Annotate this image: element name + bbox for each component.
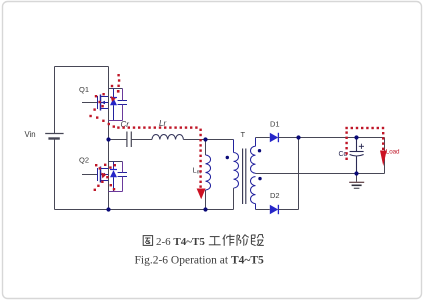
current path arrow at Lm xyxy=(197,189,206,200)
current path output loop top xyxy=(345,127,384,129)
wire output top xyxy=(299,137,385,139)
node dot leg bottom xyxy=(106,207,110,211)
current path output loop right vertical xyxy=(382,132,384,150)
svg-text:Q1: Q1 xyxy=(79,85,89,94)
transistor Q2 mosfet xyxy=(82,167,108,183)
wire half-bridge leg xyxy=(108,67,110,210)
svg-text:D2: D2 xyxy=(270,191,280,200)
current path dotted vertical through Lm xyxy=(199,129,201,188)
transformer T secondary polarity dots xyxy=(258,149,261,152)
wire D1 to node xyxy=(278,137,298,139)
node dot Co top xyxy=(354,135,358,139)
transistor Q1 arrow xyxy=(101,101,105,105)
transformer T secondary top winding xyxy=(251,138,256,174)
diode D2 xyxy=(270,205,279,214)
glyph 工 xyxy=(210,236,220,238)
glyph 图 xyxy=(143,236,152,246)
node dot Co bottom xyxy=(354,171,358,175)
Q1 drain-source capacitor xyxy=(118,101,127,105)
svg-text:D1: D1 xyxy=(270,120,280,129)
diode D1 xyxy=(270,133,279,142)
svg-text:Fig.2-6 Operation at T4~T5: Fig.2-6 Operation at T4~T5 xyxy=(135,255,265,267)
transistor Q1 mosfet xyxy=(82,95,108,111)
current path loop around Q2 xyxy=(94,164,116,191)
node dot resonant node xyxy=(203,137,207,141)
wire output bottom (center tap) xyxy=(256,173,385,175)
caption line 1: 图 2-6 T4~T5 工作阶段 xyxy=(143,236,152,246)
svg-text:Vin: Vin xyxy=(25,130,36,139)
wire Lm bottom lead xyxy=(205,190,207,210)
current path arrow at load xyxy=(380,151,387,167)
wire node to primary xyxy=(206,139,234,141)
Q1 branch right/bottom wires xyxy=(109,89,123,121)
current path dotted entry into Q1 xyxy=(117,74,120,93)
Q1 branch top wire xyxy=(109,88,123,90)
glyph 作 xyxy=(223,235,226,240)
node dot Lm bottom xyxy=(203,207,207,211)
current path loop around Q1 xyxy=(89,85,115,128)
node dot half-bridge mid xyxy=(106,137,110,141)
transistor Q2 arrow xyxy=(101,173,105,177)
wire left rail lower xyxy=(54,139,56,210)
inductor Lm xyxy=(206,155,211,190)
wire secondary top to D1 xyxy=(256,137,270,139)
capacitor Cr xyxy=(127,132,131,148)
Q2 drain-source capacitor xyxy=(118,173,127,177)
Q1 body diode xyxy=(110,89,117,121)
Q2 branch top wire xyxy=(109,161,123,163)
wire rectifier rail xyxy=(298,138,300,210)
Q2 body diode xyxy=(110,162,117,192)
svg-text:2-6 T4~T5: 2-6 T4~T5 xyxy=(156,236,205,248)
glyph 段 xyxy=(250,235,252,244)
svg-text:Load: Load xyxy=(386,149,400,156)
ground xyxy=(349,174,364,189)
wire D2 to rectifier rail xyxy=(278,209,298,211)
Q2 branch right/bottom wires xyxy=(109,162,123,192)
wire Lr to node xyxy=(183,139,205,141)
transformer T primary polarity dot xyxy=(226,156,229,159)
wire Cr to Lr xyxy=(131,139,152,141)
current path output loop left vertical xyxy=(345,131,347,160)
wire bottom rail xyxy=(55,209,234,211)
wire mid rail to Cr xyxy=(109,139,127,141)
transformer T secondary bottom winding xyxy=(251,177,256,210)
wire secondary bottom to D2 xyxy=(256,209,270,211)
wire top rail xyxy=(55,66,109,68)
transformer T core xyxy=(243,149,246,205)
capacitor Co xyxy=(350,138,364,174)
battery Vin xyxy=(45,134,63,139)
inductor Lr xyxy=(152,134,183,139)
node dot D1 cathode xyxy=(296,135,300,139)
svg-text:Q2: Q2 xyxy=(79,156,89,165)
glyph 阶 xyxy=(236,235,238,246)
wire left rail upper xyxy=(54,67,56,134)
wire Lm top lead xyxy=(205,140,207,156)
capacitor Co plus sign xyxy=(359,144,364,149)
svg-text:T: T xyxy=(241,130,246,139)
transformer T primary winding xyxy=(234,140,239,210)
wire load right xyxy=(384,138,386,174)
current path dotted horizontal Cr-Lr xyxy=(117,126,197,128)
